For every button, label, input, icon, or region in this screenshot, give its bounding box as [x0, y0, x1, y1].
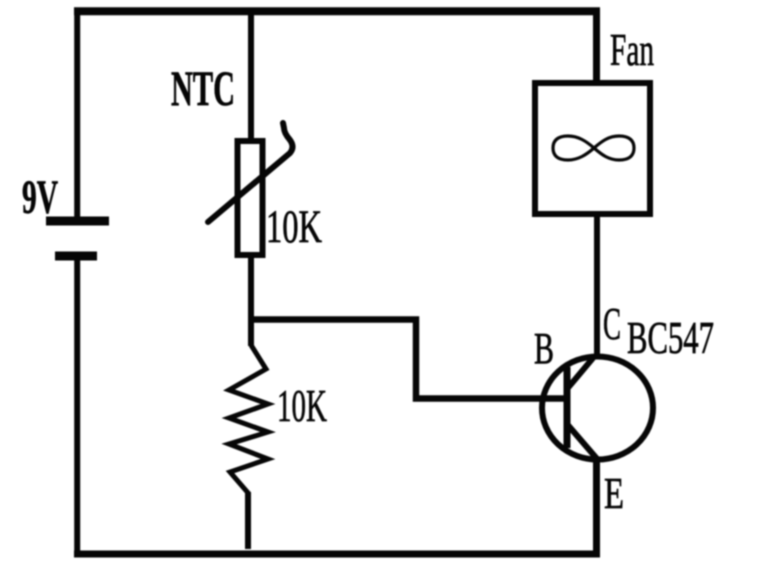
svg-text:B: B — [534, 324, 554, 373]
svg-text:NTC: NTC — [171, 60, 235, 116]
svg-text:BC547: BC547 — [627, 313, 714, 363]
svg-text:Fan: Fan — [610, 24, 654, 75]
svg-text:9V: 9V — [22, 171, 58, 224]
svg-text:C: C — [603, 298, 621, 349]
svg-text:E: E — [604, 469, 624, 518]
svg-text:10K: 10K — [266, 201, 322, 253]
svg-text:10K: 10K — [277, 380, 327, 431]
